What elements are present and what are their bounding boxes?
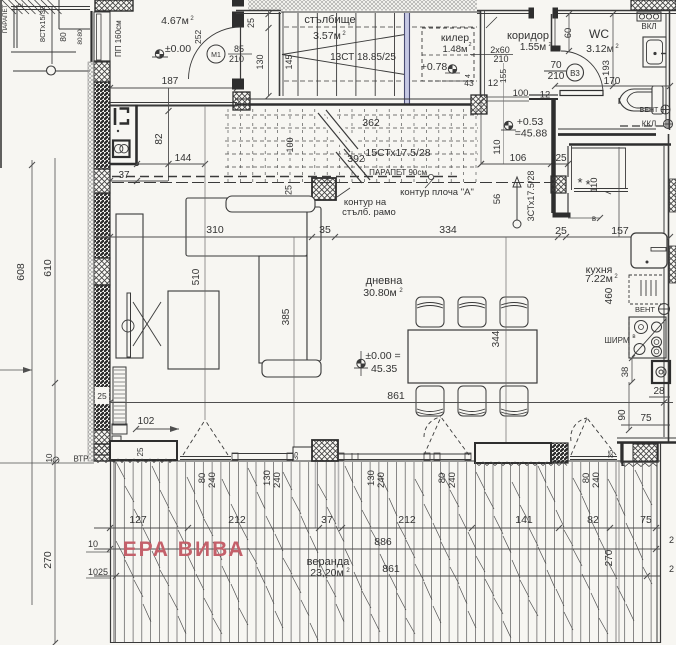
edge hatch (2, 0, 16, 14)
svg-text:коридор: коридор (507, 30, 549, 42)
svg-text:75: 75 (640, 413, 652, 424)
svg-text:1.55м: 1.55м (520, 42, 546, 53)
svg-text:144: 144 (175, 153, 192, 164)
svg-text:141: 141 (515, 514, 533, 526)
corridor left wall (480, 10, 482, 97)
svg-text:37: 37 (321, 514, 333, 526)
svg-text:ЕРА ВИВА: ЕРА ВИВА (123, 538, 246, 561)
svg-text:3СТх17.5/28: 3СТх17.5/28 (526, 171, 536, 222)
wall device rects (112, 424, 127, 434)
svg-text:82: 82 (587, 514, 599, 526)
right edge hatch (670, 179, 676, 212)
shelf unit left (116, 214, 143, 358)
toilet (652, 86, 663, 114)
svg-text:13СТ 18.85/25: 13СТ 18.85/25 (330, 52, 396, 63)
svg-text:510: 510 (191, 268, 202, 285)
chairs bottom row (416, 386, 444, 416)
veranda hatch vertical lines (115, 462, 117, 642)
dim line 310 35 334 (96, 236, 558, 238)
wall corner block at veranda (94, 444, 112, 461)
svg-text:610: 610 (42, 259, 54, 277)
laundry room walls (135, 105, 138, 167)
svg-text:ПП 160см: ПП 160см (114, 20, 123, 57)
svg-text:252: 252 (193, 30, 203, 44)
svg-text:*: * (577, 175, 582, 190)
svg-text:210: 210 (493, 54, 508, 64)
left wall of living room (94, 61, 110, 82)
svg-text:в: в (592, 214, 596, 223)
dim 38 (631, 358, 633, 382)
svg-text:10: 10 (88, 539, 98, 549)
dim 886 (94, 548, 660, 550)
svg-text:90: 90 (617, 409, 628, 421)
svg-text:35: 35 (606, 450, 615, 458)
svg-text:130: 130 (255, 54, 265, 69)
pier 35 (293, 447, 312, 461)
door B3 leaf (560, 91, 603, 96)
svg-text:310: 310 (206, 224, 224, 236)
sofa L-shape (186, 198, 307, 256)
wc bottom wall (558, 128, 656, 130)
stair arrow lower flight (513, 220, 521, 228)
svg-text:ПАРАПЕТ 90см: ПАРАПЕТ 90см (369, 168, 427, 177)
svg-text:25: 25 (555, 153, 567, 164)
svg-text:240: 240 (207, 472, 218, 488)
washbasin (643, 37, 666, 67)
svg-text:2: 2 (18, 3, 25, 7)
closet килер dashed outline (422, 28, 474, 81)
dim 270 right (618, 460, 620, 643)
svg-text:80: 80 (77, 37, 84, 45)
svg-text:170: 170 (604, 76, 621, 87)
svg-text:106: 106 (510, 153, 527, 164)
svg-text:±0.00 =: ±0.00 = (365, 350, 400, 362)
svg-text:127: 127 (129, 514, 147, 526)
svg-text:240: 240 (272, 472, 283, 488)
svg-text:35: 35 (291, 452, 300, 460)
break mark double slash (318, 110, 358, 152)
stair room top wall (236, 10, 281, 12)
dim 106 / 25 (481, 163, 568, 165)
svg-text:ВЕНТ: ВЕНТ (635, 305, 655, 314)
bottom wall base line (94, 460, 660, 462)
screen line (628, 317, 630, 358)
svg-text:70: 70 (550, 60, 562, 71)
svg-text:100: 100 (513, 88, 529, 99)
svg-text:608: 608 (15, 263, 27, 281)
svg-text:25: 25 (284, 185, 294, 195)
svg-text:25: 25 (246, 18, 256, 28)
svg-text:30.80м: 30.80м (363, 287, 397, 299)
svg-text:212: 212 (398, 514, 416, 526)
dim 861 (110, 402, 673, 404)
column block (312, 440, 338, 461)
svg-text:ШИРМ: ШИРМ (605, 336, 630, 345)
svg-text:+0.78: +0.78 (421, 61, 448, 73)
dim 193 (612, 14, 614, 86)
slab dashed grid (lower stair flight) (225, 114, 478, 116)
svg-text:75: 75 (640, 514, 652, 526)
svg-text:WC: WC (589, 27, 609, 41)
svg-text:25: 25 (136, 447, 145, 456)
svg-text:25: 25 (97, 391, 107, 401)
kitchen inner corner lines (571, 146, 573, 190)
svg-text:212: 212 (228, 514, 246, 526)
shelf line (574, 188, 628, 190)
stair treads (297, 13, 299, 96)
svg-text:82: 82 (154, 133, 165, 145)
door jambs top (529, 8, 534, 18)
svg-text:стълб. рамо: стълб. рамо (342, 207, 396, 218)
svg-text:килер: килер (441, 32, 469, 44)
svg-text:ВТР: ВТР (73, 455, 88, 464)
dim 90 75 (628, 382, 630, 430)
svg-text:±0.00: ±0.00 (165, 43, 191, 55)
block right bottom (621, 443, 658, 462)
svg-text:193: 193 (601, 60, 612, 76)
svg-text:15СТх17.5/28: 15СТх17.5/28 (365, 147, 430, 159)
svg-text:М1: М1 (211, 52, 221, 59)
stair room left wall (279, 12, 281, 96)
svg-text:210: 210 (548, 71, 565, 82)
svg-text:157: 157 (611, 225, 629, 237)
window sill 338-440 (338, 453, 440, 455)
kitchen right wall (663, 146, 665, 437)
svg-text:100: 100 (285, 137, 295, 152)
svg-text:187: 187 (162, 76, 179, 87)
kitchen top wall (569, 143, 671, 145)
slab contour line A (112, 182, 556, 184)
svg-text:37: 37 (118, 170, 130, 181)
stair direction lines (282, 34, 408, 55)
svg-text:43: 43 (464, 78, 474, 88)
door M1 circle (207, 45, 225, 63)
svg-text:102: 102 (138, 416, 155, 427)
svg-text:344: 344 (491, 330, 502, 347)
dim 144 (137, 163, 205, 165)
laundry sink fixture (114, 108, 117, 125)
adjacent balcony rail top-left (11, 6, 90, 8)
wall block top (95, 0, 133, 11)
svg-text:60: 60 (563, 28, 574, 39)
svg-text:12: 12 (488, 78, 499, 89)
insulation strip outside left wall (88, 62, 94, 461)
svg-text:240: 240 (591, 472, 602, 488)
svg-text:861: 861 (382, 563, 400, 575)
top wall corridor/wc (477, 10, 533, 12)
svg-text:ПАРАПЕТ: ПАРАПЕТ (2, 4, 9, 33)
svg-text:270: 270 (604, 549, 615, 566)
svg-text:362: 362 (362, 117, 380, 129)
svg-text:210: 210 (229, 54, 244, 64)
svg-text:3.57м: 3.57м (313, 30, 341, 42)
dim 110 (480, 101, 482, 164)
stair walk dashed lines (284, 26, 477, 28)
svg-text:85: 85 (234, 44, 244, 54)
kitchen door opening to veranda (570, 456, 617, 458)
door M1 jambs (233, 0, 244, 6)
door M1 leaf and arc (240, 27, 242, 79)
svg-text:2: 2 (669, 564, 674, 574)
radiator left (113, 367, 126, 425)
svg-text:110: 110 (589, 177, 600, 192)
left dim lines (31, 160, 33, 605)
svg-text:3.12м: 3.12м (586, 43, 614, 55)
svg-text:12: 12 (540, 90, 551, 101)
svg-text:392: 392 (347, 153, 365, 165)
svg-text:240: 240 (447, 472, 458, 488)
oven unit (652, 361, 670, 383)
wall block left (233, 92, 250, 110)
svg-text:в: в (632, 334, 635, 340)
svg-text:1.48м: 1.48м (442, 44, 467, 55)
svg-text:25: 25 (555, 225, 567, 237)
svg-text:дневна: дневна (366, 275, 404, 287)
veranda outline (110, 461, 112, 643)
dining table (408, 330, 537, 383)
svg-text:23,20м: 23,20м (310, 567, 344, 579)
svg-text:155: 155 (498, 69, 508, 83)
svg-text:80: 80 (77, 29, 84, 37)
wall block right (471, 95, 487, 114)
svg-text:ВЕНТ: ВЕНТ (640, 107, 659, 114)
kitchen bottom wall (617, 437, 676, 439)
wc bottom dashed line (620, 125, 668, 127)
svg-text:10: 10 (45, 453, 54, 462)
svg-text:=45.88: =45.88 (515, 128, 548, 140)
svg-text:ВКЛ: ВКЛ (641, 22, 656, 31)
svg-text:контур плоча "А": контур плоча "А" (400, 187, 474, 198)
dim 187 (110, 87, 237, 89)
dim 170 (555, 85, 670, 87)
svg-text:80: 80 (58, 32, 68, 42)
planter box left (110, 441, 177, 460)
svg-text:145: 145 (284, 54, 294, 69)
stair bottom wall (235, 98, 471, 100)
sill 424-471 (424, 453, 471, 455)
zigzag insulation lines (94, 459, 174, 463)
dim 460 (618, 147, 620, 237)
wc right wall (665, 14, 667, 128)
TV (127, 293, 131, 357)
svg-text:35: 35 (319, 224, 331, 236)
cabinet dashed (629, 275, 664, 304)
svg-text:270: 270 (42, 551, 54, 569)
svg-text:2: 2 (669, 535, 674, 545)
dim 37 (110, 180, 168, 182)
light extension bars (315, 462, 317, 528)
svg-text:45.35: 45.35 (371, 363, 397, 375)
svg-text:8СТх15/32: 8СТх15/32 (38, 6, 47, 42)
svg-text:334: 334 (439, 224, 457, 236)
wc top-right hatched wall (631, 0, 676, 10)
svg-text:110: 110 (492, 139, 503, 154)
svg-text:886: 886 (374, 536, 392, 548)
svg-text:38: 38 (620, 367, 631, 378)
svg-text:стълбище: стълбище (304, 14, 355, 26)
door B3 circle (567, 64, 584, 81)
svg-text:56: 56 (492, 194, 503, 205)
svg-text:7.22м: 7.22м (585, 273, 613, 285)
hatch band above stair room (adjacent unit) (248, 0, 477, 11)
door swing left (veranda door) (183, 420, 205, 455)
wall landing/kitchen (551, 99, 556, 213)
chairs top row (416, 297, 444, 327)
svg-text:240: 240 (376, 472, 387, 488)
svg-text:1025: 1025 (88, 567, 108, 577)
svg-text:4.67м: 4.67м (161, 15, 189, 27)
door swing dashed middle (424, 417, 441, 455)
corridor threshold (485, 96, 529, 98)
window sill 232-293 (232, 453, 293, 455)
fridge (631, 233, 667, 268)
svg-text:ККЛ: ККЛ (642, 120, 657, 129)
wc/corridor dividing wall (551, 14, 553, 51)
leader circle (47, 66, 56, 75)
left page edge line (0, 0, 2, 168)
hall bottom wall (110, 102, 237, 104)
coffee table (168, 291, 219, 369)
svg-text:28: 28 (653, 386, 665, 397)
block in slab (312, 178, 336, 200)
svg-text:В3: В3 (570, 69, 580, 78)
veranda diagonal slashes (116, 462, 125, 479)
svg-text:+0.53: +0.53 (517, 116, 544, 128)
dim 861v (94, 575, 660, 577)
svg-text:861: 861 (387, 390, 405, 402)
dim 82 (168, 88, 170, 181)
washing machine fixture (113, 141, 130, 158)
svg-text:385: 385 (281, 308, 292, 325)
left wall window (ПП 160см) (94, 12, 110, 62)
vertical construction lines (204, 106, 206, 420)
dim 102 (136, 428, 179, 430)
bench box (475, 443, 551, 463)
stair landing blue line (405, 13, 410, 104)
switch panel ВКЛ (637, 12, 661, 21)
dim 157 (566, 236, 670, 238)
parapet dashed bold line (112, 176, 460, 178)
sink and stove unit (629, 317, 666, 358)
svg-text:2: 2 (468, 42, 471, 48)
kitchen door swing dashed (571, 418, 587, 455)
svg-text:460: 460 (604, 287, 615, 304)
dim line 127/212/37/212/141/82/75 (94, 527, 660, 529)
wall segment right of corridor door (529, 94, 558, 96)
